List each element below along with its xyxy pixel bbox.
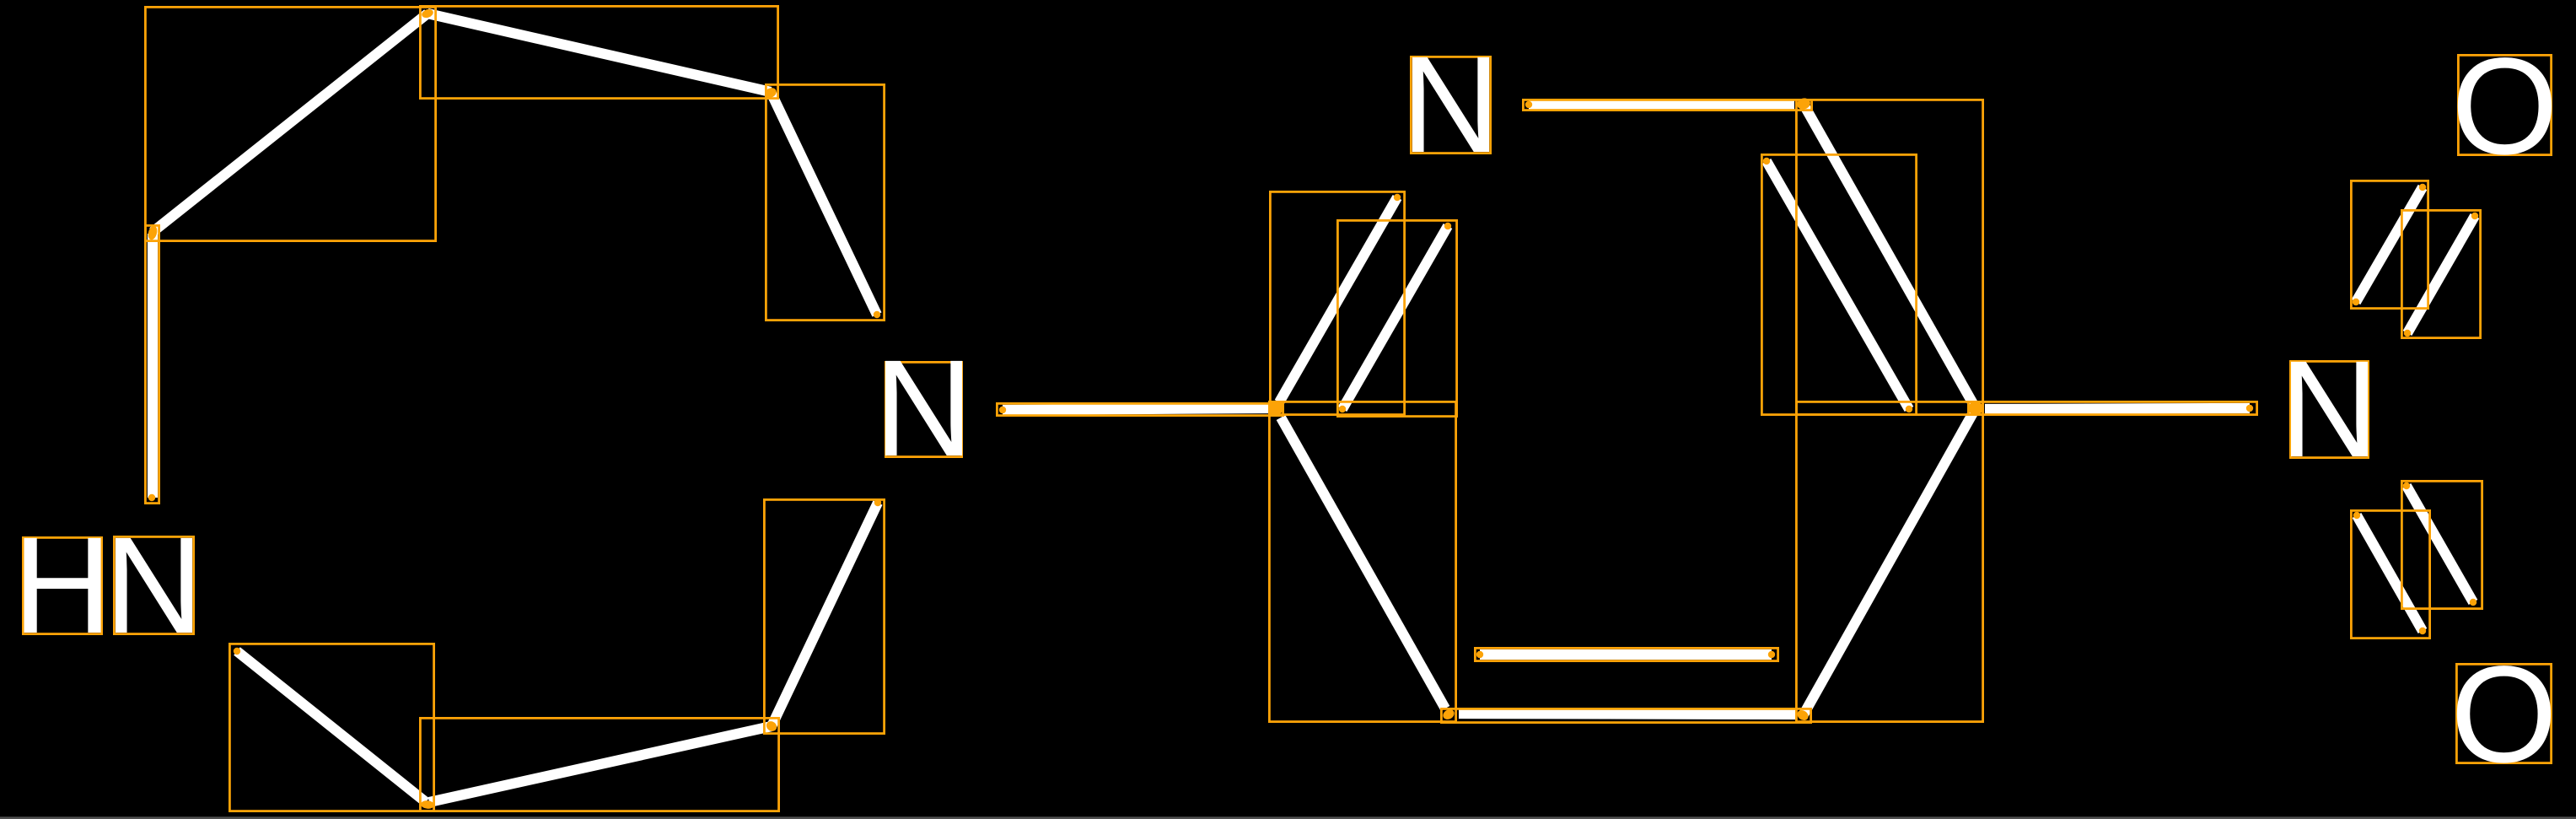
box bond N1H-C7 — [145, 225, 159, 503]
bond C4'-C5' — [1804, 408, 1976, 714]
bond C3'=C4' inner line — [1767, 161, 1909, 409]
bond C6-N1H — [237, 651, 426, 802]
box bond C6-N1H — [229, 644, 433, 811]
box bond N4-C5 — [764, 499, 884, 733]
vertex marker atom C7 left — [147, 224, 159, 240]
bond endpoint marker at 1755,776 — [1476, 651, 1483, 658]
bond endpoint marker at 2101,776 — [1768, 651, 1775, 658]
bond C3-N4 (to ring N) — [771, 92, 877, 315]
vertex marker atom C6' pyridine bottom-left — [1441, 708, 1456, 722]
vertex marker atom C5' pyridine bottom-right — [1795, 708, 1810, 722]
vertex marker atom C6 bottom — [421, 800, 435, 810]
bond endpoint marker at 2095,191 — [1763, 158, 1770, 164]
bond C7-C2 (diazepane left upper) — [153, 13, 428, 232]
box bond C6'-C1' — [1269, 401, 1455, 721]
bond N1H-C7 (vertical) — [148, 234, 158, 498]
box bond C5-C6 — [420, 718, 778, 811]
box bond N2'-C3' — [1523, 100, 1811, 110]
vertex marker atom C2 top — [421, 8, 434, 19]
bond endpoint marker at 1657,234 — [1394, 194, 1401, 201]
bond endpoint marker at 281,772 — [234, 648, 240, 655]
svg-text:N: N — [105, 508, 204, 662]
bond endpoint marker at 180,590 — [148, 494, 155, 501]
vertex marker atom C5 lower-right — [764, 719, 778, 734]
box bond N=O lower b — [2401, 481, 2482, 608]
svg-text:N: N — [2280, 331, 2380, 486]
label N of HN — [114, 536, 193, 633]
box bond C2-C3 — [420, 6, 777, 98]
label ring N4 — [885, 362, 961, 456]
bond endpoint marker at 2795,611 — [2353, 512, 2360, 519]
bond endpoint marker at 1717,268 — [1444, 223, 1451, 229]
bottom gray strip — [0, 816, 2576, 819]
box bond C3'=C4' inner — [1761, 154, 1916, 414]
bond N=O lower line a — [2357, 515, 2423, 631]
bond endpoint marker at 2935,256 — [2471, 213, 2478, 219]
bond endpoint marker at 1592,485 — [1339, 406, 1346, 412]
bond N4-C5 — [772, 503, 878, 726]
svg-text:N: N — [874, 331, 974, 485]
bond C6'-C1' — [1281, 418, 1445, 709]
box bond C7-C2 — [145, 7, 435, 240]
box bond C4'-C5' — [1796, 401, 1982, 721]
vertex marker atom C3 upper-right — [763, 86, 777, 100]
label nitro O upper — [2458, 55, 2551, 154]
svg-text:O: O — [2450, 637, 2557, 791]
bond N=O upper line a — [2356, 187, 2423, 302]
bond endpoint marker at 1189,486 — [999, 407, 1006, 413]
bond endpoint marker at 2668,484 — [2246, 405, 2253, 412]
box bond N=O lower a — [2351, 510, 2429, 638]
bond N=O lower line b — [2407, 486, 2473, 602]
bond endpoint marker at 2794,358 — [2353, 299, 2359, 305]
bond N2'-C3' (ring top) — [1529, 105, 1794, 105]
vertex marker atom C4' pyridine right — [1968, 401, 1983, 415]
bond endpoint marker at 1813,124 — [1525, 101, 1532, 108]
bond C2-C3 (diazepane top) — [428, 13, 771, 92]
box bond N4-C1' linker — [997, 403, 1283, 415]
label nitro N — [2290, 361, 2368, 457]
vertex marker atom C1' pyridine left — [1268, 401, 1283, 415]
vertex marker atom C3' pyridine top-right — [1796, 97, 1812, 111]
box bond N=O upper b — [2401, 210, 2480, 337]
bond C3'=C4' main line — [1803, 103, 1976, 408]
box bond C5'=C6' main — [1441, 709, 1810, 722]
svg-text:H: H — [13, 508, 112, 662]
bond endpoint marker at 1041,596 — [874, 499, 881, 506]
box bond C3'=C4' main — [1796, 100, 1982, 414]
bond N4-C1' (linker) — [1003, 408, 1269, 410]
bond endpoint marker at 2854,576 — [2403, 482, 2410, 489]
bond C5-C6 (diazepane bottom) — [429, 726, 772, 802]
label nitro O lower — [2456, 664, 2551, 762]
box bond C3-N4 — [766, 84, 884, 320]
box bond C5'=C6' inner — [1475, 648, 1777, 660]
bond endpoint marker at 2855,395 — [2404, 330, 2411, 337]
bond C1'=N2' main line — [1279, 197, 1397, 402]
box bond C1'=N2' main — [1270, 191, 1404, 414]
svg-text:O: O — [2451, 29, 2558, 183]
bond endpoint marker at 2933,714 — [2470, 599, 2477, 606]
bond C4'-N(nitro) — [1985, 408, 2250, 409]
bond endpoint marker at 2873,222 — [2419, 184, 2426, 191]
box bond N=O upper a — [2351, 181, 2428, 308]
label H of HN — [23, 537, 101, 633]
bond endpoint marker at 2264,485 — [1906, 406, 1912, 412]
bond C5'=C6' inner line — [1480, 649, 1772, 660]
label pyridine N2' — [1411, 57, 1490, 153]
svg-text:N: N — [1401, 27, 1501, 181]
box bond C4'-N nitro — [1968, 401, 2256, 414]
bond endpoint marker at 2873,748 — [2419, 628, 2426, 634]
bond C1'=N2' inner line — [1342, 226, 1448, 409]
bond N=O upper line b — [2407, 216, 2475, 333]
bond C5'=C6' main line — [1459, 714, 1796, 714]
box bond C1'=N2' inner — [1337, 220, 1456, 416]
bond endpoint marker at 1040,373 — [874, 311, 880, 318]
